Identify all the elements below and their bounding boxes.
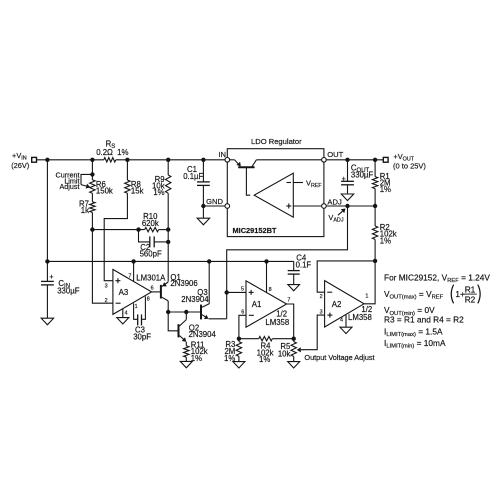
wire RS to IN pin xyxy=(116,159,225,161)
junction R3/R4/pin6 xyxy=(237,337,241,341)
svg-text:10k: 10k xyxy=(278,349,291,358)
junction C1 top xyxy=(201,158,205,162)
resistor R10 620k xyxy=(142,212,159,232)
resistor R11 102k 1% xyxy=(184,340,208,362)
junction R1 top xyxy=(373,158,377,162)
svg-text:Adjust: Adjust xyxy=(60,182,80,191)
svg-text:A1: A1 xyxy=(252,300,262,309)
junction Q1 collector node xyxy=(166,310,170,314)
ground R3 xyxy=(233,362,245,368)
potentiometer R5 10k output adjust xyxy=(278,339,304,362)
wire R6 top lead xyxy=(91,160,93,180)
wire OUT to +VOUT terminal xyxy=(326,159,383,161)
svg-text:330µF: 330µF xyxy=(57,287,80,296)
A3 pin4 ground stub xyxy=(123,309,128,318)
svg-text:0.1F: 0.1F xyxy=(296,261,312,270)
junction A1 pin5 / VADJ xyxy=(225,290,229,294)
svg-text:5: 5 xyxy=(241,286,244,292)
op-amp A1 1/2 LM358 xyxy=(246,281,289,327)
capacitor C3 30pF compensation xyxy=(133,296,151,341)
wire R4 right lead xyxy=(272,338,293,340)
svg-text:LM301A: LM301A xyxy=(136,273,166,282)
svg-text:+: + xyxy=(49,272,53,281)
wire node B to Q1 emitter xyxy=(167,230,169,282)
wire left supply rail vertical xyxy=(46,160,48,262)
ground C1/GND xyxy=(197,206,209,225)
resistor R3 2M 1% xyxy=(224,339,242,363)
capacitor CIN 330uF xyxy=(41,261,80,318)
junction C2 right xyxy=(166,240,170,244)
pass transistor PNP inside LDO xyxy=(230,160,322,195)
junction COUT top xyxy=(345,158,349,162)
junction node B (R9/R10/C2) xyxy=(166,227,170,231)
resistor R4 102k 1% xyxy=(257,337,274,365)
svg-text:8: 8 xyxy=(269,287,272,293)
A1 pin8 supply stub xyxy=(267,261,272,293)
svg-text:2: 2 xyxy=(320,294,323,300)
potentiometer R6 150k current-limit xyxy=(81,174,113,195)
wire R9 to node B xyxy=(167,193,169,229)
wire VIN to RS xyxy=(37,159,104,161)
pin ADJ xyxy=(322,197,342,208)
junction VIN rail / left supply rail xyxy=(45,158,49,162)
svg-text:8: 8 xyxy=(147,297,150,303)
svg-text:IN: IN xyxy=(218,150,226,159)
A3 pin7 supply stub xyxy=(128,261,133,281)
pin GND xyxy=(206,197,229,208)
ground CIN xyxy=(41,318,53,325)
wire node A to R10 xyxy=(92,229,144,231)
ground COUT xyxy=(341,194,353,201)
ground R5 xyxy=(288,362,300,368)
wire V+ rail horizontal xyxy=(47,260,293,262)
svg-text:1%: 1% xyxy=(380,185,391,194)
wire A3 output to Q1 base xyxy=(152,291,160,293)
svg-text:(0 to 25V): (0 to 25V) xyxy=(393,162,426,171)
terminal +VIN input xyxy=(11,151,36,170)
junction R10 left xyxy=(136,227,140,231)
junction R6 wiper tie xyxy=(90,172,94,176)
wire R8 to A3 pin3 xyxy=(104,193,127,281)
junction Q2 collector node xyxy=(184,310,188,314)
svg-text:3: 3 xyxy=(105,284,108,290)
wire A2 pin2 feedback xyxy=(317,261,375,292)
svg-text:2N3906: 2N3906 xyxy=(170,279,197,288)
ground A3 pin4 xyxy=(117,318,129,324)
svg-text:330µF: 330µF xyxy=(351,171,374,180)
resistor R1 2M 1% xyxy=(372,160,391,206)
resistor R7 1k xyxy=(79,199,95,214)
terminal +VOUT xyxy=(383,152,426,171)
svg-text:LM358: LM358 xyxy=(265,318,289,327)
svg-text:R3 = R1 and R4 = R2: R3 = R1 and R4 = R2 xyxy=(384,315,464,325)
svg-text:3: 3 xyxy=(320,309,323,315)
junction R4/R5/A1out xyxy=(292,337,296,341)
svg-text:(26V): (26V) xyxy=(11,161,29,170)
svg-text:2N3904: 2N3904 xyxy=(189,330,217,339)
junction A1 pin8 on V+ rail xyxy=(264,259,268,263)
svg-text:0.1µF: 0.1µF xyxy=(183,172,203,181)
label VADJ with arrow xyxy=(328,209,345,224)
transistor Q1 2N3906 PNP xyxy=(161,273,198,301)
label current limit adjust xyxy=(56,170,80,191)
junction supply rail / CIN xyxy=(45,259,49,263)
ground A2 pin4 xyxy=(340,327,352,333)
resistor RS 0.2ohm 1% (sense) xyxy=(96,139,128,162)
svg-text:15k: 15k xyxy=(131,187,144,196)
svg-text:0.2Ω 1%: 0.2Ω 1% xyxy=(96,148,128,157)
ground C4 xyxy=(288,285,300,291)
wire Q1 collector to Q3 base xyxy=(168,311,200,313)
wire Q3 emitter to VADJ node xyxy=(209,318,227,320)
wire R5 wiper to A2 pin3 xyxy=(304,315,325,350)
wire to Q2 base xyxy=(168,312,178,331)
svg-text:7: 7 xyxy=(287,297,290,303)
wire A2 output pin1 xyxy=(364,261,375,304)
svg-text:R1: R1 xyxy=(465,284,476,294)
wire A1 pin6 input xyxy=(239,315,246,338)
svg-text:6: 6 xyxy=(151,286,154,292)
svg-text:1: 1 xyxy=(365,294,368,300)
pin IN xyxy=(218,150,229,162)
wire R10 to node B xyxy=(159,229,169,231)
resistor R8 15k xyxy=(125,160,144,196)
wire Q1 collector down xyxy=(167,301,169,312)
svg-text:R2: R2 xyxy=(465,294,476,304)
junction VADJ sense xyxy=(345,204,349,208)
svg-text:30pF: 30pF xyxy=(133,333,151,342)
svg-text:GND: GND xyxy=(206,197,223,206)
svg-text:1%: 1% xyxy=(380,236,391,245)
wire R4 left lead xyxy=(239,338,259,340)
junction R1/R2/ADJ xyxy=(373,204,377,208)
svg-text:4: 4 xyxy=(125,311,128,317)
op-amp A3 LM301A xyxy=(113,269,166,314)
resistor R2 102k 1% xyxy=(372,206,396,261)
svg-text:2: 2 xyxy=(105,298,108,304)
error amplifier inside LDO xyxy=(254,173,322,217)
resistor R9 10k 1% xyxy=(152,160,171,197)
svg-text:560pF: 560pF xyxy=(140,250,162,259)
svg-text:OUT: OUT xyxy=(327,150,343,159)
svg-text:7: 7 xyxy=(128,274,131,280)
transistor Q2 2N3904 NPN xyxy=(179,312,217,342)
svg-text:LM358: LM358 xyxy=(348,313,372,322)
svg-text:MIC29152BT: MIC29152BT xyxy=(233,226,277,235)
junction R2 bottom / A2 out xyxy=(373,259,377,263)
svg-text:A3: A3 xyxy=(119,288,129,297)
svg-text:620k: 620k xyxy=(142,219,159,228)
svg-text:6: 6 xyxy=(241,309,244,315)
wire R7 to node A xyxy=(91,212,93,229)
svg-text:4: 4 xyxy=(340,318,343,324)
wire ADJ to R1/R2 junction xyxy=(326,205,375,207)
capacitor COUT 330uF xyxy=(341,160,373,194)
junction R6 top xyxy=(90,158,94,162)
svg-text:150k: 150k xyxy=(96,187,113,196)
LDO regulator box MIC29152BT xyxy=(227,137,324,237)
capacitor C2 560pF xyxy=(139,230,169,259)
junction R8 top xyxy=(125,158,129,162)
svg-text:ADJ: ADJ xyxy=(327,197,342,206)
svg-text:LDO Regulator: LDO Regulator xyxy=(251,137,302,146)
op-amp A2 1/2 LM358 xyxy=(325,281,373,327)
svg-text:1%: 1% xyxy=(259,355,270,364)
wire A1 output pin7 xyxy=(287,304,294,339)
junction node A (R7/R10) xyxy=(90,227,94,231)
svg-text:1%: 1% xyxy=(153,188,164,197)
junction C1 bottom / GND pin xyxy=(201,204,205,208)
svg-text:1k: 1k xyxy=(81,206,89,215)
wire GND pin to C1 xyxy=(203,205,225,207)
svg-text:For MIC29152, VREF = 1.24V: For MIC29152, VREF = 1.24V xyxy=(384,272,490,284)
svg-text:Output Voltage Adjust: Output Voltage Adjust xyxy=(304,353,374,362)
wire R6 to R7 xyxy=(91,193,93,202)
capacitor C1 0.1uF xyxy=(183,160,210,206)
junction R9 top xyxy=(166,158,170,162)
A2 pin4 ground stub xyxy=(340,315,346,327)
svg-text:1: 1 xyxy=(135,304,138,310)
junction A3 pin7 on V+ rail xyxy=(131,259,135,263)
pin OUT xyxy=(322,150,344,162)
svg-text:A2: A2 xyxy=(332,300,342,309)
capacitor C4 0.1uF decoupling xyxy=(288,253,312,284)
junction Q3 collector on V+ rail xyxy=(207,259,211,263)
formula Vout max xyxy=(384,284,480,304)
ground R11 xyxy=(180,361,192,367)
wire node A to A3 pin2 xyxy=(92,230,113,304)
svg-text:2N3904: 2N3904 xyxy=(181,295,209,304)
transistor Q3 2N3904 NPN xyxy=(181,261,209,319)
wire A1 pin5 input xyxy=(227,291,246,293)
wire VADJ sense line xyxy=(227,206,348,319)
